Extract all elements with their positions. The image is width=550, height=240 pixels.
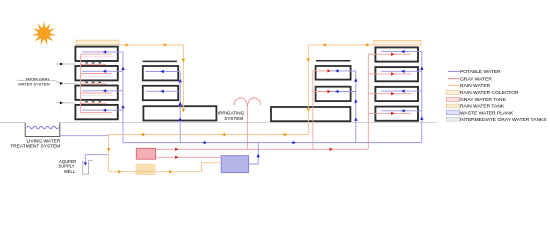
svg-text:SYSTEM: SYSTEM <box>224 116 243 121</box>
svg-text:GRAY WATER: GRAY WATER <box>460 76 492 82</box>
svg-text:WATER SYSTEM: WATER SYSTEM <box>18 81 50 86</box>
svg-text:LIVING WATER: LIVING WATER <box>26 138 60 144</box>
svg-text:TREATMENT SYSTEM: TREATMENT SYSTEM <box>10 144 60 150</box>
svg-text:INTERMEDIATE GRAY WATER TANKS: INTERMEDIATE GRAY WATER TANKS <box>460 117 547 123</box>
svg-text:RAIN WATER COLECTOR: RAIN WATER COLECTOR <box>460 90 519 96</box>
svg-text:WELL: WELL <box>64 169 76 174</box>
svg-text:WASTE WATER PLANK: WASTE WATER PLANK <box>460 110 514 116</box>
svg-text:RAIN WATER TANK: RAIN WATER TANK <box>460 104 505 110</box>
svg-text:RAIN WATER: RAIN WATER <box>460 83 491 89</box>
svg-text:GRAY WATER TANK: GRAY WATER TANK <box>460 97 507 103</box>
svg-text:POTABLE WATER: POTABLE WATER <box>460 69 501 75</box>
svg-text:SUPPLY: SUPPLY <box>59 164 75 169</box>
